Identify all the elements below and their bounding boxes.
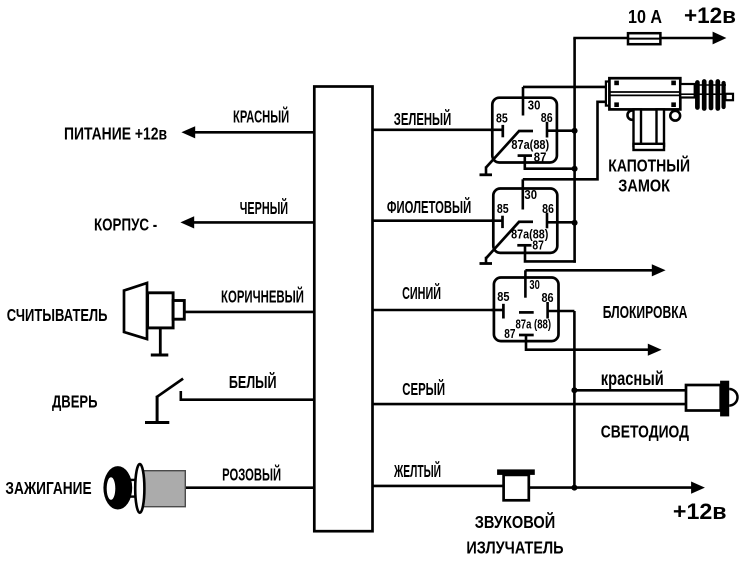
svg-text:ФИОЛЕТОВЫЙ: ФИОЛЕТОВЫЙ xyxy=(387,196,471,217)
bellows ridge 3 xyxy=(709,82,714,108)
ignition key cylinder (gray) xyxy=(143,471,186,507)
K1 wire 86 to bus xyxy=(547,129,575,132)
svg-text:87: 87 xyxy=(534,151,547,165)
junction K1-86/bus xyxy=(572,128,578,134)
keyhole xyxy=(107,477,116,500)
arrow БЛОКИРОВКА bottom xyxy=(648,344,662,356)
K2 pin 30 lead xyxy=(521,179,524,209)
wire pink (left row 5) xyxy=(185,486,314,489)
LED dome xyxy=(729,389,737,406)
K1 pin 87 bar xyxy=(518,154,532,157)
key head (black) xyxy=(103,466,132,509)
wire red (left row 1) xyxy=(194,131,314,134)
shaft inner line xyxy=(680,93,694,95)
wire blue stub inside K3 xyxy=(492,309,504,312)
actuator tip xyxy=(725,94,733,100)
lower bus xyxy=(573,311,576,488)
wire brown (left row 3) xyxy=(184,311,314,314)
K1 pin 30 lead xyxy=(522,87,525,116)
piston rod line lower through bellows xyxy=(695,93,726,95)
reader body xyxy=(148,293,174,328)
K1 pin 86 lead xyxy=(546,122,549,138)
K3 wire 86 to lower bus xyxy=(548,310,575,313)
svg-text:СВЕТОДИОД: СВЕТОДИОД xyxy=(601,422,690,442)
body corner square tl xyxy=(614,81,619,86)
svg-text:СЧИТЫВАТЕЛЬ: СЧИТЫВАТЕЛЬ xyxy=(7,305,108,325)
upper +12 bus xyxy=(573,38,576,263)
svg-text:ЗВУКОВОЙ: ЗВУКОВОЙ xyxy=(475,511,555,532)
svg-text:ЧЕРНЫЙ: ЧЕРНЫЙ xyxy=(240,197,288,218)
K2 pin 86 lead xyxy=(546,213,549,229)
K2 ground bar xyxy=(480,262,493,265)
reader connector xyxy=(173,301,184,320)
K2 wire 87 to bus bottom xyxy=(525,245,576,261)
K2 ground drop xyxy=(485,257,488,263)
svg-text:СЕРЫЙ: СЕРЫЙ xyxy=(402,378,445,399)
wire white (left row 4) xyxy=(181,398,314,401)
reader horn trapezoid xyxy=(124,283,147,339)
K1 movable contact dash xyxy=(519,130,534,133)
sound emitter top bar xyxy=(497,469,535,475)
bellows ridge 2 xyxy=(702,82,707,109)
hood lock hook right xyxy=(670,111,680,121)
wire yellow (right row 5) xyxy=(373,485,505,488)
K3 pin 30 lead xyxy=(524,270,527,297)
door switch blade xyxy=(156,379,183,398)
svg-text:+12в: +12в xyxy=(684,3,736,28)
K1 ground bar xyxy=(480,173,493,176)
body corner square br xyxy=(671,102,676,107)
svg-text:КОРИЧНЕВЫЙ: КОРИЧНЕВЫЙ xyxy=(221,285,304,306)
K1 wire 87 to bus xyxy=(525,156,575,169)
svg-text:87: 87 xyxy=(504,327,515,341)
K2 pin 85 bar xyxy=(501,216,504,228)
key ring bezel xyxy=(135,464,144,513)
wire K1-30 to hood lock (upper) xyxy=(523,86,607,89)
K3 wire 87 to lower arrow xyxy=(526,335,648,350)
svg-text:КОРПУС -: КОРПУС - xyxy=(94,215,157,235)
bellows ridge 1 xyxy=(695,83,700,108)
hood lock hook left xyxy=(628,110,637,119)
svg-text:ДВЕРЬ: ДВЕРЬ xyxy=(52,392,98,412)
wire violet stub inside K2 xyxy=(491,219,503,222)
wire emitter to +12 arrow xyxy=(529,486,692,489)
junction K1-87/bus xyxy=(572,166,578,172)
svg-text:ПИТАНИЕ +12в: ПИТАНИЕ +12в xyxy=(64,124,167,144)
reader foot bar xyxy=(151,354,169,357)
svg-text:КРАСНЫЙ: КРАСНЫЙ xyxy=(233,106,289,127)
arrow to КОРПУС xyxy=(180,216,194,228)
svg-text:30: 30 xyxy=(528,99,541,113)
wire K3-30 to БЛОКИРОВКА top arrow xyxy=(525,269,652,272)
arrow БЛОКИРОВКА top xyxy=(652,264,666,276)
fuse F1 xyxy=(628,33,660,44)
wire green stub inside K1 xyxy=(490,129,503,132)
body inner line 2 xyxy=(609,94,680,96)
wire violet (right row 2) xyxy=(373,219,503,222)
svg-text:87: 87 xyxy=(532,238,544,252)
fused +12 feed wire xyxy=(573,37,713,40)
bellows ridge 5 xyxy=(721,83,725,107)
wire to LED (red) xyxy=(574,389,687,392)
K2 movable contact dash xyxy=(519,220,534,223)
K2 wire 86 to bus xyxy=(547,221,575,224)
svg-text:10 А: 10 А xyxy=(628,6,662,27)
svg-text:ИЗЛУЧАТЕЛЬ: ИЗЛУЧАТЕЛЬ xyxy=(466,537,563,557)
reader stand xyxy=(159,328,162,354)
svg-text:ЖЕЛТЫЙ: ЖЕЛТЫЙ xyxy=(393,460,441,481)
body corner square bl xyxy=(614,102,619,107)
svg-text:РОЗОВЫЙ: РОЗОВЫЙ xyxy=(222,463,281,484)
bracket right leg xyxy=(657,109,665,146)
hood lock actuator body xyxy=(609,78,680,109)
K1 blade diagonal xyxy=(486,131,520,168)
wire gray (right row 4) to LED xyxy=(373,403,688,406)
svg-text:БЕЛЫЙ: БЕЛЫЙ xyxy=(229,371,277,392)
svg-text:85: 85 xyxy=(497,202,509,216)
svg-text:85: 85 xyxy=(497,290,509,304)
wire black (left row 2) xyxy=(193,221,314,224)
K2 pin 87 bar xyxy=(517,244,531,247)
svg-text:85: 85 xyxy=(496,111,508,125)
body inner line 1 xyxy=(609,91,680,93)
junction bus/+12 wire xyxy=(571,485,577,491)
control unit main box xyxy=(314,87,372,532)
relay K3 box xyxy=(494,278,559,342)
body corner square tr xyxy=(671,81,676,86)
hood lock actuator left tab xyxy=(606,82,611,106)
svg-text:ЗАЖИГАНИЕ: ЗАЖИГАНИЕ xyxy=(5,478,91,498)
wire K2-30 to hood lock (lower) xyxy=(523,102,607,180)
sound emitter square xyxy=(504,475,529,500)
key shank white gap xyxy=(130,480,142,498)
K1 ground drop xyxy=(485,167,488,175)
svg-text:ЗЕЛЕНЫЙ: ЗЕЛЕНЫЙ xyxy=(394,108,451,129)
door switch pivot post xyxy=(156,396,159,423)
LED body xyxy=(686,385,721,411)
K2 blade diagonal xyxy=(486,221,520,258)
svg-text:30: 30 xyxy=(529,278,539,292)
svg-text:87а (88): 87а (88) xyxy=(516,318,552,332)
svg-text:красный: красный xyxy=(601,369,664,390)
piston rod line upper through bellows xyxy=(695,84,726,86)
arrow +12в top xyxy=(713,32,727,45)
bracket bottom bar xyxy=(634,144,665,150)
wire green (right row 1) xyxy=(373,129,503,132)
relay K1 box xyxy=(492,98,557,163)
svg-text:+12в: +12в xyxy=(673,499,727,524)
arrow to ПИТАНИЕ xyxy=(181,126,195,138)
junction bus/LED wire xyxy=(571,387,577,393)
K3 pin 86 lead xyxy=(546,302,549,319)
relay K2 box xyxy=(493,189,557,253)
svg-text:30: 30 xyxy=(524,188,537,202)
arrow +12в bottom xyxy=(691,482,705,494)
piston shaft xyxy=(680,84,694,98)
svg-text:КАПОТНЫЙ: КАПОТНЫЙ xyxy=(608,154,690,175)
junction K2-86/bus xyxy=(572,220,578,226)
LED end plate xyxy=(720,381,729,417)
K3 movable contact dash xyxy=(519,311,534,314)
K3 pin 85 bar xyxy=(502,304,505,319)
wire blue (right row 3) xyxy=(373,309,504,312)
door switch foot bar xyxy=(145,421,169,424)
wire jog at switch contact xyxy=(180,391,183,401)
bracket left leg xyxy=(634,109,642,146)
K1 pin 85 bar xyxy=(501,125,504,137)
svg-text:ЗАМОК: ЗАМОК xyxy=(618,176,670,196)
bellows ridge 4 xyxy=(715,82,720,109)
svg-text:БЛОКИРОВКА: БЛОКИРОВКА xyxy=(603,302,688,322)
K3 pin 87 bar xyxy=(519,334,534,337)
svg-text:СИНИЙ: СИНИЙ xyxy=(402,282,441,303)
